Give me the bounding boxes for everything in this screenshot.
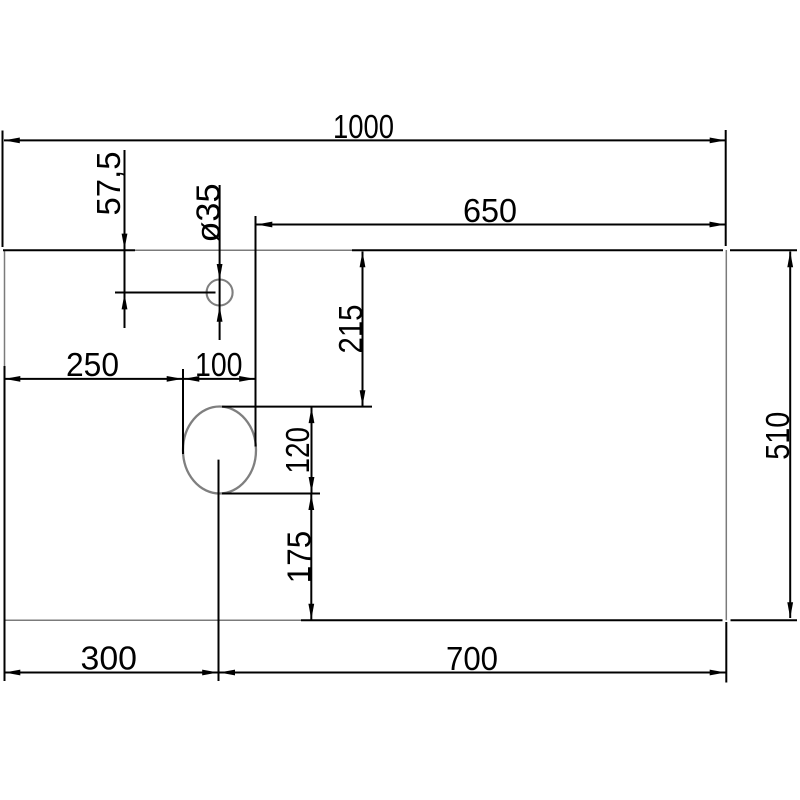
svg-text:700: 700 <box>446 640 498 677</box>
dimension 700 line <box>219 670 725 676</box>
svg-text:650: 650 <box>463 192 517 229</box>
part outline left edge black segment <box>4 366 6 681</box>
dimension 120 line <box>309 407 315 493</box>
svg-text:215: 215 <box>332 305 369 354</box>
faucet hole center horizontal line <box>115 292 216 294</box>
part outline right edge <box>725 250 727 620</box>
dimension 1000 line <box>4 138 726 144</box>
drain hole oval <box>183 407 256 494</box>
right edge lower extension for 700 dim <box>725 622 727 683</box>
part outline top edge (thin segment) <box>135 249 352 251</box>
drain top tangent extension line <box>222 406 372 408</box>
dimension 215 line <box>360 252 366 407</box>
drain bottom tangent extension line <box>222 493 320 495</box>
svg-text:ø35: ø35 <box>189 184 226 243</box>
dimension 1000 extension line left <box>2 131 4 248</box>
part outline top edge left black segment <box>3 249 135 251</box>
svg-text:175: 175 <box>280 531 317 584</box>
extension line at drain right tangent / 650 reference <box>255 216 257 447</box>
part outline top edge right black segment <box>352 249 723 251</box>
svg-text:120: 120 <box>279 427 316 474</box>
extension line at drain left tangent <box>182 369 184 454</box>
dimension 650 line <box>257 222 726 228</box>
dimension 250 line <box>5 376 184 382</box>
part outline bottom edge black segment <box>301 619 723 621</box>
svg-text:300: 300 <box>81 640 138 677</box>
drain center vertical extension line <box>218 460 220 681</box>
dimension 175 line <box>308 494 314 619</box>
dimension 300 line <box>5 670 219 676</box>
faucet hole ø35 <box>207 280 233 306</box>
dimension 100 line <box>183 376 256 382</box>
part outline left edge (thin segment) <box>4 250 6 366</box>
top edge extension to 510 dimension <box>730 249 797 251</box>
dimension 510 line <box>787 252 793 619</box>
svg-text:1000: 1000 <box>333 108 394 145</box>
svg-text:250: 250 <box>66 346 119 383</box>
svg-text:57,5: 57,5 <box>90 152 127 216</box>
svg-text:100: 100 <box>195 346 243 383</box>
svg-text:510: 510 <box>759 412 796 460</box>
dimension ø35 leader line with outside arrows <box>217 185 223 340</box>
dimension 1000/650 extension line right <box>725 130 727 246</box>
bottom edge extension to 510 dimension <box>731 619 798 621</box>
dimension 57.5 line with outside arrows <box>122 150 128 328</box>
part outline bottom edge (thin segment) <box>5 619 302 621</box>
